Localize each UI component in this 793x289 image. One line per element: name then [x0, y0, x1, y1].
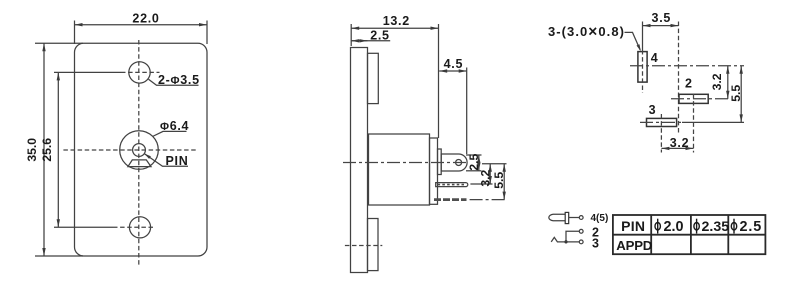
- leader PIN with arrow: [144, 154, 188, 167]
- dim 2.5 line: [351, 40, 390, 42]
- dim 3.2 line: [489, 164, 491, 184]
- pin 3 centerline: [470, 199, 507, 201]
- contact 2 wire: [566, 231, 579, 242]
- contact 3 wire with spring: [551, 237, 579, 242]
- dim 35.0 extension bottom: [35, 255, 83, 257]
- pin 4 slot: [638, 52, 647, 83]
- table cell phi2.0: [655, 219, 660, 234]
- dim 3.5 line: [643, 25, 679, 27]
- leader 2-phi3.5: [149, 79, 199, 85]
- pin 3 horizontal centerline: [640, 121, 682, 123]
- dim 25.6 line: [57, 72, 59, 227]
- svg-text:35.0: 35.0: [25, 138, 39, 162]
- svg-text:3.2: 3.2: [710, 73, 724, 90]
- hole top 3.5: [129, 62, 150, 83]
- pin 4 horizontal centerline: [630, 65, 744, 67]
- dim 22.0 extension right: [206, 21, 208, 45]
- svg-text:3.2: 3.2: [479, 170, 493, 187]
- terminal circle 3: [579, 240, 583, 244]
- svg-text:2: 2: [685, 77, 692, 91]
- center hole 6.4: [120, 131, 159, 170]
- dim 5.5 right line: [740, 66, 742, 123]
- top hole centerline horizontal: [54, 71, 121, 73]
- plug barrel: [549, 214, 566, 221]
- svg-text:PIN: PIN: [166, 154, 189, 168]
- dim 22.0 extension left: [74, 21, 76, 45]
- axis centerline: [343, 162, 467, 164]
- svg-text:5.5: 5.5: [492, 172, 506, 189]
- svg-text:5.5: 5.5: [729, 85, 743, 102]
- junction dot: [564, 240, 567, 243]
- svg-text:3.2: 3.2: [670, 136, 689, 150]
- bottom hole centerline horizontal: [54, 226, 113, 228]
- lug dim 2.5 ext bottom: [466, 170, 482, 172]
- pin 3 ext line to 5.5 dim: [682, 121, 744, 123]
- dim 4.5 line: [439, 70, 467, 72]
- cap: [430, 138, 438, 204]
- pin 2 side view: [436, 183, 468, 187]
- svg-text:3: 3: [649, 103, 656, 117]
- shared ext line for 3.2/5.5: [482, 163, 507, 165]
- bottom boss: [368, 219, 379, 271]
- pin 4 stem: [569, 217, 580, 219]
- pin 3 vertical centerline: [660, 114, 662, 153]
- lug holder: [438, 149, 442, 175]
- pin 3 slot: [647, 118, 677, 126]
- dim 3.5 ext right (dashed): [678, 22, 680, 134]
- svg-text:4.5: 4.5: [444, 57, 463, 71]
- pin 2 horizontal centerline: [671, 98, 729, 100]
- svg-text:3: 3: [592, 237, 599, 251]
- pin 4 vertical centerline: [642, 50, 644, 93]
- dim 13.2 ext right: [438, 24, 440, 138]
- dim 3.2 right line: [727, 66, 729, 99]
- leader to pin 4: [625, 32, 641, 50]
- flange plate: [351, 48, 368, 273]
- bottom hole centerline: [345, 245, 382, 247]
- svg-text:PIN: PIN: [621, 218, 645, 234]
- terminal lug: [441, 154, 467, 171]
- dim 4.5 ext right: [466, 68, 468, 155]
- pin 3 side view (hidden): [434, 198, 467, 201]
- center hole horizontal centerline: [63, 149, 197, 151]
- svg-text:APPD: APPD: [616, 238, 652, 253]
- table cell phi2.5: [731, 219, 736, 234]
- dim 5.5 line: [503, 164, 505, 200]
- table cell phi2.35: [694, 219, 699, 234]
- pin 2 extension line: [470, 183, 492, 185]
- svg-text:2.5: 2.5: [467, 154, 481, 171]
- terminal circle 4: [579, 216, 583, 220]
- svg-text:4(5): 4(5): [591, 213, 609, 224]
- svg-text:2-Φ3.5: 2-Φ3.5: [158, 73, 200, 87]
- svg-text:2.0: 2.0: [664, 219, 684, 235]
- pin 2 vertical centerline: [693, 94, 695, 153]
- pin 2 slot: [679, 94, 708, 103]
- svg-text:2.5: 2.5: [370, 29, 389, 43]
- body: [369, 134, 430, 205]
- lug hole: [456, 160, 462, 166]
- dim 22.0 line: [75, 24, 208, 26]
- lug dim 2.5 line: [478, 155, 480, 171]
- dim 3.5 ext left: [642, 22, 644, 51]
- keyway trapezoid: [128, 160, 151, 167]
- svg-text:13.2: 13.2: [383, 14, 410, 28]
- svg-text:Φ6.4: Φ6.4: [160, 119, 189, 133]
- center pin circle: [133, 144, 146, 157]
- plate outline: [75, 43, 208, 256]
- svg-text:4: 4: [651, 51, 658, 65]
- plate vertical centerline: [138, 40, 140, 266]
- terminal circle 2: [579, 229, 583, 233]
- hole bottom 3.5: [129, 217, 150, 238]
- dim 13.2 ext left: [350, 24, 352, 46]
- dim 35.0 line: [43, 43, 45, 256]
- svg-text:3-(3.0×0.8): 3-(3.0×0.8): [548, 24, 625, 41]
- dim 3.2 bottom line: [661, 147, 693, 149]
- svg-text:3.5: 3.5: [652, 11, 671, 25]
- svg-text:25.6: 25.6: [40, 138, 54, 162]
- dim 13.2 line: [351, 27, 438, 29]
- svg-text:2.5: 2.5: [740, 219, 763, 235]
- top boss: [368, 53, 379, 103]
- table grid: [613, 215, 766, 254]
- svg-text:22.0: 22.0: [132, 12, 159, 26]
- dim 35.0 extension top: [35, 42, 83, 44]
- svg-text:2.35: 2.35: [702, 219, 730, 235]
- leader phi6.4: [153, 131, 187, 136]
- plug flange bar: [565, 212, 569, 223]
- lug dim 2.5 ext top: [466, 154, 482, 156]
